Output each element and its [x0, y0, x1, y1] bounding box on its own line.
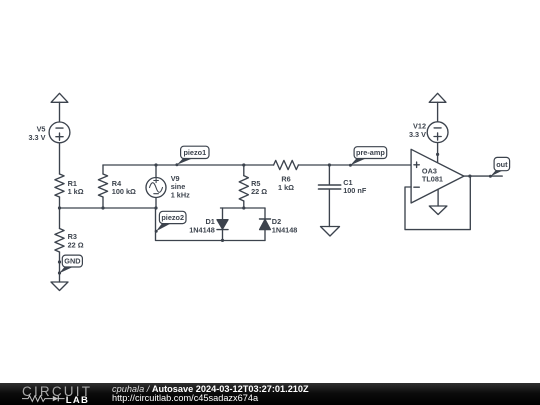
svg-text:1 kHz: 1 kHz: [171, 191, 190, 200]
svg-text:out: out: [496, 160, 508, 169]
svg-text:100 nF: 100 nF: [343, 186, 367, 195]
svg-text:1 kΩ: 1 kΩ: [68, 187, 84, 196]
svg-text:GND: GND: [64, 257, 80, 266]
svg-text:pre-amp: pre-amp: [356, 148, 385, 157]
svg-text:22 Ω: 22 Ω: [251, 187, 267, 196]
svg-text:100 kΩ: 100 kΩ: [112, 187, 136, 196]
svg-text:TL081: TL081: [422, 175, 443, 184]
svg-text:22 Ω: 22 Ω: [68, 240, 84, 249]
svg-text:3.3 V: 3.3 V: [409, 130, 426, 139]
svg-text:1N4148: 1N4148: [189, 225, 215, 234]
svg-text:1N4148: 1N4148: [272, 225, 298, 234]
svg-text:piezo2: piezo2: [161, 213, 184, 222]
svg-text:3.3 V: 3.3 V: [28, 133, 45, 142]
svg-text:1 kΩ: 1 kΩ: [278, 183, 294, 192]
svg-text:piezo1: piezo1: [183, 148, 206, 157]
